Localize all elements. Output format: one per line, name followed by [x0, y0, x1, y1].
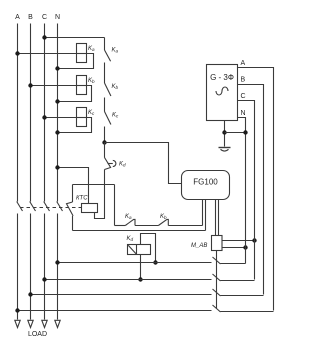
wire between contacts Kb and Kc — [104, 98, 106, 112]
wire coil Ka to neutral — [58, 54, 94, 69]
svg-text:N: N — [55, 14, 60, 21]
wire hop on phase A row — [213, 305, 221, 312]
phase A bus row — [18, 311, 274, 312]
node on line C at y=279.5 — [42, 277, 46, 281]
generator output wire C — [238, 101, 255, 280]
svg-text:B: B — [28, 14, 33, 21]
wire coil Kd top to neutral row — [141, 234, 156, 263]
line A (load phase A vertical) — [17, 24, 19, 320]
line N (load neutral vertical) — [57, 24, 59, 320]
wire neutral to KTC coil — [58, 168, 89, 204]
svg-text:Ka: Ka — [125, 214, 132, 220]
node on phase C row at x=140.5 — [138, 277, 142, 281]
phase B bus row — [31, 295, 264, 296]
node on line B at y=294.5 — [28, 292, 32, 296]
svg-text:КТС: КТС — [76, 196, 88, 202]
svg-text:Kc: Kc — [112, 113, 119, 119]
node on N drop at y=132.5 — [243, 130, 247, 134]
node on line C at y=117.5 — [42, 115, 46, 119]
svg-text:G - 3Ф: G - 3Ф — [210, 73, 234, 82]
contact Kb (chain) — [105, 83, 111, 96]
generator output wire B — [238, 85, 264, 295]
contact Ka (chain) — [105, 50, 111, 61]
relay coil Kd — [128, 245, 151, 255]
wire phase B to coil Kb — [31, 85, 77, 87]
contactor KTC main contact on line A — [17, 202, 23, 212]
wire node down to contact Kd — [104, 143, 106, 158]
svg-text:Kb: Kb — [88, 78, 95, 84]
contactor KTC main contact on line B — [30, 202, 36, 212]
node on line N at y=68.5 — [55, 66, 59, 70]
wire M_AB to phase C drop — [222, 240, 255, 242]
node on line B at y=85.5 — [28, 83, 32, 87]
node chain junction — [102, 140, 106, 144]
controller FG100 — [182, 171, 230, 200]
relay coil Ka — [77, 44, 87, 63]
relay coil Kb — [77, 76, 87, 95]
wire M_AB bottom control line — [216, 251, 218, 309]
load arrow N — [55, 320, 60, 327]
wire hop on neutral row — [213, 257, 221, 264]
node on line A at y=53.5 — [15, 51, 19, 55]
wire contact chain to node — [104, 127, 106, 143]
wire contact Kb to FG100 pin — [168, 225, 202, 227]
wire node to FG100 input — [105, 143, 182, 184]
wire phase A to coil Ka — [18, 53, 77, 55]
contact Kb (series horizontal) — [158, 219, 168, 225]
node on C drop at y=240.5 — [252, 238, 256, 242]
relay coil Kc — [77, 108, 87, 127]
contact Kc (chain) — [105, 112, 111, 125]
svg-text:Kb: Kb — [160, 214, 167, 220]
FG100 pin 1 — [202, 200, 204, 226]
wire phase C to coil Kc — [45, 117, 77, 119]
svg-text:Ka: Ka — [88, 46, 95, 52]
FG100 pin 2 — [205, 200, 207, 231]
svg-text:B: B — [241, 77, 246, 84]
svg-text:Kb: Kb — [112, 84, 119, 90]
svg-text:A: A — [15, 14, 20, 21]
contactor KTC main contact on line C — [44, 202, 50, 212]
node on N drop at y=247.5 — [243, 245, 247, 249]
wire contact Kd down to KTC coil loop — [95, 170, 105, 219]
wire coil Kc to neutral — [58, 118, 92, 133]
wire aux contact to FG100 pin — [73, 216, 206, 231]
actuator M_AB — [212, 236, 223, 251]
mechanical linkage dashed — [20, 207, 82, 209]
contact Kd time-delay — [105, 158, 111, 170]
svg-text:C: C — [241, 93, 246, 100]
svg-text:C: C — [42, 14, 47, 21]
svg-text:Ka: Ka — [112, 48, 119, 54]
node on line N at y=262.5 — [55, 260, 59, 264]
contactor KTC main contact on line N — [57, 202, 63, 212]
load arrow B — [28, 320, 33, 327]
wire series contacts rail — [115, 225, 126, 227]
FG100 pin 4 — [218, 200, 220, 236]
wire top rail down to aux contact — [72, 185, 74, 203]
wire between series contacts — [135, 225, 158, 227]
ground — [219, 147, 231, 149]
contactor KTC auxiliary contact — [67, 202, 74, 216]
generator G-3F — [207, 65, 238, 121]
svg-text:Kd: Kd — [119, 162, 126, 168]
wire top rail down to contacts Ka Kb — [114, 185, 116, 226]
node on line C at y=37.5 — [42, 35, 46, 39]
node on line N at y=132.5 — [55, 130, 59, 134]
load arrow A — [15, 320, 20, 327]
node on line A at y=310.5 — [15, 308, 19, 312]
svg-text:LOAD: LOAD — [28, 331, 47, 338]
wire from phase C to contact chain — [45, 37, 105, 39]
svg-text:N: N — [241, 110, 246, 117]
wire hop on phase B row — [213, 289, 221, 296]
generator output wire A — [238, 68, 274, 311]
node at ground tap — [222, 130, 226, 134]
svg-text:Kd: Kd — [127, 236, 134, 242]
node on line N at y=167.5 — [55, 165, 59, 169]
line B (load phase B vertical) — [30, 24, 32, 320]
contactor coil KTC — [82, 204, 98, 213]
load arrow C — [42, 320, 47, 327]
FG100 pin 3 — [215, 200, 217, 236]
wire ground tap to neutral drop — [225, 132, 246, 134]
wire M_AB to neutral drop — [222, 247, 246, 249]
svg-text:A: A — [241, 60, 246, 67]
contact Ka (series horizontal) — [125, 219, 135, 225]
wire coil Kd bottom to phase C row — [140, 255, 142, 280]
wire KTC block top rail — [73, 184, 115, 186]
wire contact chain vertical top — [104, 38, 106, 51]
wire between contacts Ka and Kb — [104, 63, 106, 84]
svg-text:FG100: FG100 — [193, 178, 218, 187]
line C (load phase C vertical) — [44, 24, 46, 320]
wire coil Kb to neutral — [58, 86, 92, 102]
svg-text:Kc: Kc — [88, 110, 95, 116]
neutral bus row — [58, 263, 246, 264]
node on line N at y=101.5 — [55, 99, 59, 103]
wire generator bottom to ground — [224, 121, 226, 147]
generator output wire N — [238, 118, 246, 264]
phase C bus row — [45, 280, 255, 281]
wire hop on phase C row — [213, 274, 221, 281]
node on neutral row at x=155.5 — [153, 260, 157, 264]
svg-text:M_AB: M_AB — [191, 243, 207, 249]
